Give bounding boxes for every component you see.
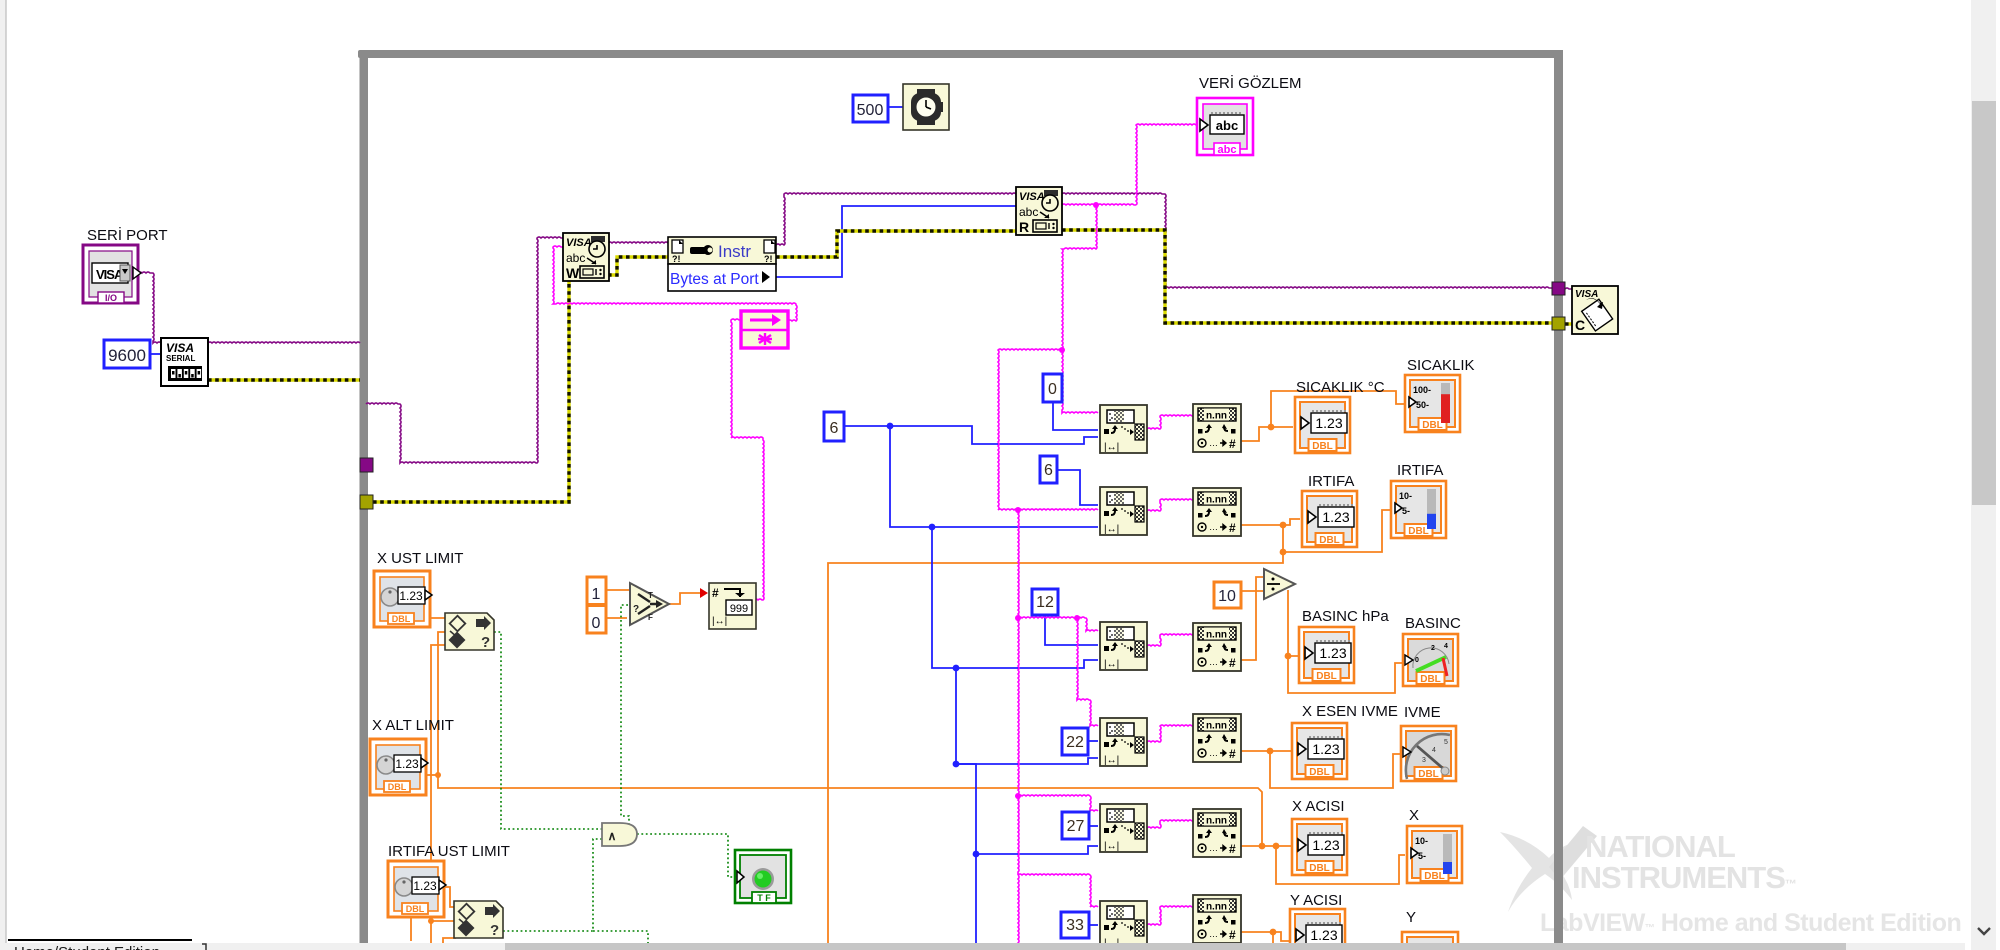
svg-text:n.nn: n.nn <box>1206 721 1227 732</box>
right scrollbar track <box>1971 0 1996 950</box>
svg-text:…: … <box>1209 748 1218 758</box>
wire: blue trunk down to row4 <box>956 668 1098 764</box>
value field BASINC hPa <box>1315 641 1351 663</box>
wire: row3 B out up to divide <box>1239 577 1264 660</box>
wire: IRTIFA UST knob to node2 top input <box>442 887 456 907</box>
svg-text:LabVIEW™ Home and Student Edit: LabVIEW™ Home and Student Edition <box>1540 909 1961 937</box>
wire: SERI PORT control to VISA serial <box>138 272 161 343</box>
svg-text:#: # <box>1229 842 1236 856</box>
svg-text:#: # <box>1229 437 1236 451</box>
value field IRTIFA num <box>1318 505 1354 527</box>
string subset block row1 <box>1100 405 1147 453</box>
svg-text:DBL: DBL <box>388 782 407 792</box>
stem X slider <box>1443 834 1452 874</box>
svg-text:?: ? <box>490 922 499 939</box>
stem IRTIFA thermo <box>1427 489 1436 529</box>
junction blue trunk top <box>887 423 894 430</box>
svg-text:VERİ GÖZLEM: VERİ GÖZLEM <box>1199 74 1302 92</box>
wire: string trunk down to row6 <box>1018 796 1019 875</box>
string subset block row5 <box>1100 804 1147 852</box>
svg-text:0: 0 <box>1415 657 1419 664</box>
svg-text:1.23: 1.23 <box>1319 645 1346 661</box>
wire: VISA write to property node <box>608 242 668 243</box>
svg-text:10-: 10- <box>1415 836 1428 846</box>
svg-text:T: T <box>648 591 653 600</box>
wire: string trunk left-down to row2 <box>998 349 1098 510</box>
svg-text:50-: 50- <box>1416 400 1429 410</box>
svg-text:2: 2 <box>1431 645 1435 652</box>
string subset block row2 <box>1100 487 1147 535</box>
tunnel: purple left <box>360 458 373 472</box>
svg-text:|↔|: |↔| <box>712 616 727 627</box>
junction blue row5 <box>973 851 980 858</box>
gauge IVME <box>1401 726 1456 781</box>
svg-text:abc: abc <box>566 251 585 265</box>
right scrollbar thumb <box>1972 101 1996 505</box>
wire: VISA read string out <box>1062 204 1136 205</box>
junction row6 <box>1270 929 1277 936</box>
match pattern block <box>741 311 788 348</box>
VISA configure serial port block <box>161 338 208 386</box>
wire: string into row1 subset <box>1062 350 1098 413</box>
svg-text:R: R <box>1019 219 1029 235</box>
svg-text:…: … <box>1209 843 1218 853</box>
svg-text:IRTIFA: IRTIFA <box>1397 462 1443 479</box>
svg-text:DBL: DBL <box>1424 871 1445 882</box>
wire: X ALT LIMIT knob output <box>424 774 438 776</box>
bottom scrollbar thumb <box>505 943 1846 950</box>
wire: row6 subset to scan <box>1147 906 1193 925</box>
svg-text:5-: 5- <box>1402 506 1410 516</box>
svg-text:Instr: Instr <box>718 242 751 261</box>
svg-text:T F: T F <box>757 893 771 903</box>
svg-text:SERİ PORT: SERİ PORT <box>87 226 168 244</box>
svg-text:C: C <box>1575 317 1585 333</box>
wire: string into row3 subset <box>1018 617 1098 631</box>
svg-text:DBL: DBL <box>406 904 425 914</box>
svg-text:|↔|: |↔| <box>1104 755 1119 766</box>
VISA close block <box>1572 286 1618 334</box>
in-range node 2 <box>454 901 503 939</box>
input arrow X ACISI <box>1298 839 1306 851</box>
wire: row5 subset to scan <box>1147 820 1193 828</box>
stem SICAKLIK thermo <box>1441 383 1450 423</box>
status bar line <box>8 939 192 941</box>
knob control X UST LIMIT <box>374 571 432 627</box>
svg-text:VISA: VISA <box>1019 191 1045 203</box>
svg-text:?: ? <box>481 634 490 651</box>
wire: 500 to wait-ms <box>888 106 903 108</box>
wire: AND output to TF LED <box>637 834 736 877</box>
wire: const 12 into row3 subset <box>1045 615 1098 645</box>
svg-text:10-: 10- <box>1399 491 1412 501</box>
scan value block row3 <box>1193 623 1241 671</box>
tunnel: error left <box>360 495 373 509</box>
wire: branch to IVME gauge <box>1270 751 1400 788</box>
junction row5 b <box>1273 843 1280 850</box>
wire: string trunk down to row3 <box>1018 510 1019 618</box>
svg-text:DBL: DBL <box>1309 767 1330 778</box>
junction blue row2 <box>929 524 936 531</box>
constant 0 <box>1043 374 1062 402</box>
input arrow IRTIFA thermo <box>1395 503 1402 513</box>
svg-text:n.nn: n.nn <box>1206 630 1227 641</box>
input arrow SICAKLIK thermo <box>1409 397 1416 407</box>
wire: node2 bottom input from below <box>443 938 456 950</box>
junction row1 <box>1268 424 1275 431</box>
wire: node1 boolean down to AND <box>494 632 602 829</box>
value field SICAKLIK C <box>1311 411 1347 433</box>
wire: const 33 into row6 subset <box>1089 924 1098 926</box>
wire: const 6 into row2 subset <box>1057 470 1098 505</box>
svg-text:SERIAL: SERIAL <box>166 354 195 363</box>
constant 9600 <box>104 340 150 368</box>
svg-text:6: 6 <box>1044 462 1053 479</box>
wire: node2 middle input stub <box>431 920 454 922</box>
wire: X UST LIMIT knob to in-range node1 upper input <box>428 617 445 619</box>
junction X ALT limit riser <box>435 772 441 778</box>
junction string row1 <box>1059 347 1065 353</box>
wire: right tunnel error to VISA close <box>1565 322 1572 325</box>
svg-text:SICAKLIK °C: SICAKLIK °C <box>1296 379 1385 396</box>
junction row5 a <box>1259 843 1266 850</box>
wire: blue trunk down to row3 <box>932 527 1098 668</box>
wire: const 6 row1 feed <box>844 426 1098 444</box>
input arrow BASINC hPa <box>1305 647 1313 659</box>
scan value block row5 <box>1193 809 1241 857</box>
numeric indicator X ACISI <box>1292 819 1347 875</box>
svg-text:1.23: 1.23 <box>1322 509 1349 525</box>
svg-text:∧: ∧ <box>608 829 617 843</box>
svg-text:BASINC hPa: BASINC hPa <box>1302 608 1389 625</box>
svg-text:22: 22 <box>1066 734 1084 751</box>
wire: node2 boolean to AND <box>503 839 602 931</box>
junction string trunk row2 <box>1015 507 1021 513</box>
wire: resource inside loop to VISA write <box>366 237 563 463</box>
input arrow X ESEN IVME <box>1298 743 1306 755</box>
svg-text:100-: 100- <box>1413 385 1431 395</box>
tunnel: error right <box>1552 317 1565 330</box>
wire: branch to X slider <box>1276 846 1405 884</box>
wire: match pattern out to VISA write <box>553 246 797 321</box>
svg-text:IVME: IVME <box>1404 704 1441 721</box>
select function node <box>630 583 669 625</box>
svg-text:VISA: VISA <box>1575 289 1598 300</box>
svg-text:n.nn: n.nn <box>1206 495 1227 506</box>
svg-text:n.nn: n.nn <box>1206 902 1227 913</box>
input arrow X slider <box>1411 848 1418 858</box>
wire: row3 subset to scan <box>1147 634 1193 646</box>
svg-text:SICAKLIK: SICAKLIK <box>1407 357 1475 374</box>
thermometer IRTIFA thermo <box>1391 481 1446 538</box>
svg-text:27: 27 <box>1067 818 1085 835</box>
svg-text:1.23: 1.23 <box>1312 837 1339 853</box>
numeric indicator X ESEN IVME <box>1292 723 1347 779</box>
knob control IRTIFA UST LIMIT <box>388 861 446 917</box>
divide function <box>1264 569 1295 599</box>
right scrollbar down arrow <box>1978 928 1990 934</box>
left window gutter <box>0 0 6 943</box>
svg-text:1.23: 1.23 <box>1315 415 1342 431</box>
input arrow Y ACISI <box>1296 929 1304 941</box>
knob control X ALT LIMIT <box>370 739 428 795</box>
svg-text:…: … <box>1209 657 1218 667</box>
AND gate <box>602 823 637 846</box>
string subset block row6 <box>1100 901 1147 949</box>
svg-text:VISA: VISA <box>566 237 592 249</box>
wire: string branch down to row4 subset <box>1077 618 1098 726</box>
numeric indicator SICAKLIK C <box>1295 397 1350 453</box>
watermark eagle logo <box>1500 826 1597 912</box>
wire: IRTIFA value down-left to limit logic <box>828 552 1283 950</box>
number to fractional string block <box>709 583 756 629</box>
svg-text:IRTIFA UST LIMIT: IRTIFA UST LIMIT <box>388 843 510 860</box>
svg-text:1.23: 1.23 <box>413 879 437 893</box>
constant 10 orange <box>1214 582 1241 608</box>
wire: node1 lower input riser <box>431 645 445 950</box>
svg-text:Y: Y <box>1406 909 1416 926</box>
VISA read block <box>1016 187 1062 235</box>
wire: node1 middle input riser <box>438 632 445 775</box>
indicator Y partial <box>1402 932 1458 950</box>
svg-text:Y ACISI: Y ACISI <box>1290 892 1342 909</box>
svg-text:|↔|: |↔| <box>1104 524 1119 535</box>
svg-text:1.23: 1.23 <box>395 757 419 771</box>
wire: const 0 into row1 subset <box>1053 402 1098 430</box>
wire: error from left tunnel up to VISA write <box>373 281 569 502</box>
junction node2 mid <box>428 918 434 924</box>
svg-text:IRTIFA: IRTIFA <box>1308 473 1354 490</box>
wire: row6 B out to Y ACISI <box>1239 932 1291 941</box>
constant 12 <box>1032 589 1058 615</box>
junction string trunk row3 <box>1015 615 1021 621</box>
svg-text:1.23: 1.23 <box>1312 741 1339 757</box>
svg-text:X ALT LIMIT: X ALT LIMIT <box>372 717 454 734</box>
svg-text:#: # <box>1229 656 1236 670</box>
gauge BASINC <box>1403 634 1458 686</box>
wire: row1 subset to scan <box>1147 415 1193 429</box>
constant 27 <box>1062 812 1089 839</box>
svg-text:0: 0 <box>1048 381 1057 398</box>
svg-text:10: 10 <box>1218 588 1236 605</box>
svg-text:#: # <box>1229 747 1236 761</box>
wire: blue trunk to bottom edge <box>975 854 977 950</box>
svg-text:5: 5 <box>1444 739 1448 746</box>
svg-text:1: 1 <box>592 586 601 603</box>
svg-text:33: 33 <box>1066 917 1084 934</box>
wire: blue trunk down to row2 <box>890 426 1098 527</box>
svg-text:999: 999 <box>730 603 748 615</box>
wire: VISA serial error out to loop <box>208 378 360 381</box>
svg-text:#: # <box>712 586 719 600</box>
junction blue row3 <box>953 665 960 672</box>
svg-text:X UST LIMIT: X UST LIMIT <box>377 550 463 567</box>
svg-text:X: X <box>1409 807 1419 824</box>
svg-text:?!: ?! <box>764 254 773 264</box>
numeric indicator Y ACISI <box>1290 909 1345 950</box>
wire: bytes-at-port to VISA read count <box>776 206 1016 277</box>
wait ms block <box>903 84 949 130</box>
svg-text:X ESEN IVME: X ESEN IVME <box>1302 703 1398 720</box>
wire: property node error to VISA read <box>776 231 1016 257</box>
scan value block row6 <box>1193 895 1241 943</box>
bottom right corner <box>1965 943 2000 950</box>
wire: select output to number-to-string <box>668 593 700 604</box>
wire: const 27 into row5 subset <box>1089 825 1098 827</box>
boolean LED indicator <box>735 850 791 903</box>
svg-text:9600: 9600 <box>108 346 146 365</box>
svg-text:DBL: DBL <box>392 614 411 624</box>
svg-text:6: 6 <box>830 420 839 437</box>
wire: row4 B out to X ESEN IVME <box>1239 750 1291 752</box>
svg-text:#: # <box>1229 928 1236 942</box>
wire: const 10 to divide <box>1241 590 1264 592</box>
gauge IVME face <box>1403 734 1450 779</box>
value field X ACISI <box>1308 833 1344 855</box>
string indicator VERI GOZLEM <box>1197 98 1253 156</box>
svg-text:DBL: DBL <box>1309 863 1330 874</box>
svg-text:n.nn: n.nn <box>1206 816 1227 827</box>
scan value block row1 <box>1193 404 1241 452</box>
string subset block row3 <box>1100 622 1147 670</box>
wire: selector boolean riser <box>621 605 629 824</box>
string subset block row4 <box>1100 718 1147 766</box>
junction row4 <box>1267 748 1274 755</box>
wire: string trunk down <box>1062 205 1097 350</box>
svg-text:VISA: VISA <box>166 341 194 355</box>
svg-text:DBL: DBL <box>1420 674 1441 685</box>
wire: VISA read error to right tunnel <box>1062 230 1552 323</box>
constant 500 <box>853 95 888 122</box>
in-range node 1 <box>445 613 494 651</box>
wire: string into row5 subset <box>1018 795 1098 811</box>
svg-text:5-: 5- <box>1418 851 1426 861</box>
svg-text:DBL: DBL <box>1408 526 1429 537</box>
wire: string up to VERI GOZLEM <box>1136 124 1197 205</box>
wire: stub below IRTIFA knob <box>410 918 412 941</box>
status tiny icon <box>202 944 206 950</box>
junction string main <box>1093 202 1099 208</box>
wire: long X value run to row5 <box>438 775 1262 846</box>
wire: VISA read resource to right tunnel <box>1062 193 1552 288</box>
wire: 9600 to VISA serial <box>150 353 161 355</box>
svg-text:NATIONAL: NATIONAL <box>1585 829 1735 864</box>
bottom scrollbar track <box>0 943 1965 950</box>
wire: const 22 into row4 subset <box>1088 740 1098 742</box>
junction string trunk row5 <box>1015 793 1021 799</box>
constant 6 row1 <box>824 412 844 441</box>
svg-text:DBL: DBL <box>1319 535 1340 546</box>
svg-text:DBL: DBL <box>1316 671 1337 682</box>
svg-text:#: # <box>1229 521 1236 535</box>
svg-text:DBL: DBL <box>1422 420 1443 431</box>
thermometer SICAKLIK thermo <box>1405 375 1460 432</box>
wire: VISA serial resource out to loop <box>208 342 360 343</box>
value field X ESEN IVME <box>1308 737 1344 759</box>
scan value block row4 <box>1193 714 1241 762</box>
svg-text:|↔|: |↔| <box>1104 841 1119 852</box>
junction row2 b <box>1280 549 1287 556</box>
wire: const 0 to select <box>606 617 627 619</box>
svg-text:…: … <box>1209 522 1218 532</box>
wire: blue trunk down to row5 <box>956 764 1098 854</box>
svg-text:INSTRUMENTS™: INSTRUMENTS™ <box>1572 860 1796 895</box>
wire: string trunk down to row5 <box>1018 618 1019 796</box>
wire: number-string up to match pattern <box>731 319 764 600</box>
junction blue row4 <box>953 761 960 768</box>
wire: string into row6 subset <box>1018 874 1098 907</box>
wire: row1 B out to SICAKLIK C indicator <box>1239 427 1293 441</box>
svg-text:abc: abc <box>1216 118 1238 133</box>
svg-text:…: … <box>1209 929 1218 939</box>
wire: row2 subset to scan <box>1147 499 1193 511</box>
wire: branch to SICAKLIK thermometer <box>1271 391 1405 427</box>
svg-text:abc: abc <box>1019 205 1038 219</box>
svg-text:4: 4 <box>1432 747 1436 754</box>
svg-text:|↔|: |↔| <box>1104 659 1119 670</box>
constant 33 <box>1061 912 1089 938</box>
wire: right tunnel to VISA close <box>1565 288 1572 289</box>
junction basinc <box>1285 653 1292 660</box>
wire: VISA write error to property node <box>608 257 668 275</box>
svg-text:500: 500 <box>857 102 884 119</box>
svg-text:…: … <box>1209 438 1218 448</box>
VISA write block <box>563 233 609 281</box>
svg-text:abc: abc <box>1218 144 1237 156</box>
svg-text:1.23: 1.23 <box>1310 927 1337 943</box>
junction string row3-4 <box>1074 615 1080 621</box>
svg-text:DBL: DBL <box>1418 769 1439 780</box>
svg-text:3: 3 <box>1422 757 1426 764</box>
input arrow IRTIFA num <box>1308 511 1316 523</box>
numeric indicator BASINC hPa <box>1299 627 1354 683</box>
while loop frame <box>358 50 1563 943</box>
svg-text:X ACISI: X ACISI <box>1292 798 1345 815</box>
wire: row4 subset to scan <box>1147 725 1193 742</box>
wire: branch to BASINC gauge <box>1288 656 1402 693</box>
svg-text:0: 0 <box>592 615 601 632</box>
junction row2 a <box>1280 522 1287 529</box>
input arrow SICAKLIK C <box>1301 417 1309 429</box>
numeric indicator IRTIFA num <box>1302 491 1357 547</box>
svg-text:BASINC: BASINC <box>1405 615 1461 632</box>
wire: branch to IRTIFA thermometer <box>1283 510 1390 552</box>
wire: string trunk to bottom edge <box>1018 875 1019 950</box>
thermometer X slider <box>1407 826 1462 883</box>
coercion dot red arrow <box>700 588 708 598</box>
wire: node2 boolean extension <box>593 931 648 950</box>
svg-text:12: 12 <box>1036 594 1054 611</box>
wire: divide output to BASINC hPa <box>1288 590 1301 656</box>
svg-text:?!: ?! <box>672 254 681 264</box>
svg-text:1.23: 1.23 <box>399 589 423 603</box>
svg-text:I/O: I/O <box>105 293 117 303</box>
constant 1 and 0 pair <box>587 577 606 633</box>
wire: property node to VISA read <box>776 193 1016 245</box>
svg-text:Home/Student Edition: Home/Student Edition <box>14 944 160 950</box>
value field Y ACISI <box>1306 923 1342 945</box>
scan value block row2 <box>1193 488 1241 536</box>
constant 6 row2 <box>1040 456 1057 483</box>
svg-text:W: W <box>566 265 580 281</box>
svg-text:n.nn: n.nn <box>1206 411 1227 422</box>
wire: row2 B out to IRTIFA indicator <box>1239 519 1300 525</box>
gauge BASINC face <box>1405 643 1449 676</box>
VISA resource control SERI PORT <box>83 245 141 303</box>
property node bytes at port <box>668 237 776 291</box>
wire: row6 branch down to Y indicator <box>1272 932 1274 950</box>
svg-text:Bytes at Port: Bytes at Port <box>670 271 759 288</box>
